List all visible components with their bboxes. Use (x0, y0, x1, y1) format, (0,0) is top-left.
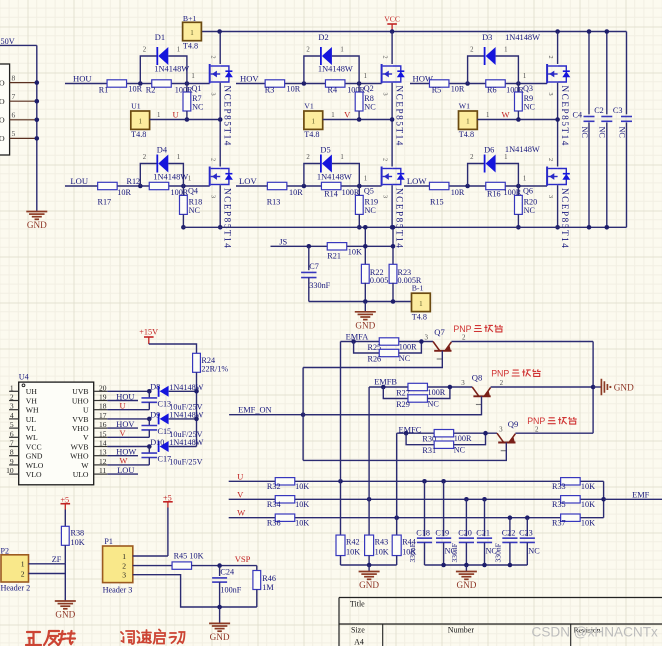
resistor R46 1M (256, 566, 258, 571)
svg-text:NC: NC (192, 103, 204, 112)
svg-text:R46: R46 (262, 574, 276, 583)
svg-text:13: 13 (99, 448, 107, 457)
svg-text:U: U (237, 471, 244, 481)
svg-text:3: 3 (461, 379, 465, 387)
svg-text:UL: UL (26, 415, 37, 424)
svg-text:W: W (502, 109, 511, 119)
node U at MOSFET column (218, 117, 223, 122)
wire drain Q3 (557, 32, 559, 65)
junction top rail at Q1 drain (217, 29, 222, 34)
svg-text:W1: W1 (459, 101, 470, 110)
wire source Q2 to mid node (391, 83, 393, 120)
resistor R43 10K (365, 535, 374, 556)
capacitor C15 10uF/25V (148, 419, 150, 426)
svg-text:10K: 10K (295, 518, 309, 527)
svg-text:1: 1 (364, 176, 367, 183)
transistor Q4 NCEP85T14 (209, 167, 211, 186)
svg-text:1: 1 (177, 47, 180, 54)
resistor R23 0.005R (389, 264, 397, 283)
node V at NC resistor (357, 117, 362, 122)
svg-text:R15: R15 (430, 197, 444, 206)
ic U4 pin 7 VCC (9, 446, 19, 448)
capacitor C22 330nF (509, 518, 511, 537)
resistor R14 100R (321, 182, 341, 189)
svg-text:GND: GND (359, 580, 379, 590)
svg-text:10K: 10K (346, 548, 360, 557)
svg-text:Title: Title (350, 599, 365, 608)
capacitor C18 330nF (424, 481, 426, 536)
svg-text:1: 1 (190, 29, 194, 37)
svg-text:20: 20 (99, 383, 107, 392)
resistor R6 100R (486, 80, 506, 87)
svg-text:VCC: VCC (26, 442, 42, 451)
wire R22 column (364, 227, 366, 264)
wire U phase node row (150, 119, 221, 121)
svg-text:R5: R5 (432, 86, 442, 95)
svg-text:R1: R1 (99, 86, 109, 95)
wire Q9 emitter to GND bus (515, 432, 593, 434)
node junction D3 anode-side (465, 81, 470, 86)
power port VCC (391, 24, 393, 32)
resistor R32 10K (275, 478, 295, 485)
wire P2 pin1 ZF (29, 563, 66, 565)
svg-text:1: 1 (364, 73, 367, 80)
svg-text:NC: NC (365, 206, 377, 215)
svg-text:C4: C4 (573, 111, 583, 120)
diode D9 1N4148W (158, 413, 160, 424)
svg-text:5: 5 (10, 420, 14, 429)
resistor R29 NC (parallel) (383, 387, 408, 399)
wire source Q3 to mid node (557, 83, 559, 120)
resistor R24 22R/1% (193, 353, 201, 372)
svg-text:10K: 10K (189, 551, 203, 560)
svg-text:W: W (237, 508, 246, 518)
connector pin 7 (10, 100, 37, 102)
node gate junction Q6 (516, 184, 521, 189)
svg-text:10uF/25V: 10uF/25V (169, 458, 202, 467)
node divider gnd (367, 563, 372, 568)
resistor R21 10K (327, 243, 347, 250)
transistor Q3 NCEP85T14 (546, 64, 548, 83)
svg-text:VH: VH (26, 396, 38, 405)
svg-text:O: O (0, 78, 5, 87)
ic U4 pin 8 GND (9, 455, 19, 457)
svg-text:WVB: WVB (71, 442, 89, 451)
resistor R34 10K (275, 496, 295, 503)
resistor R44 10K (392, 535, 401, 556)
svg-text:6: 6 (10, 429, 14, 438)
diode D2 1N4148W (304, 56, 321, 84)
svg-text:Size: Size (351, 625, 365, 634)
capacitor C4 NC (588, 32, 590, 115)
wire EMFC row (397, 432, 497, 434)
svg-text:Q5: Q5 (364, 187, 374, 196)
node Q7 base (419, 339, 424, 344)
connector P? (partial, left edge) (0, 64, 10, 155)
svg-text:D8: D8 (150, 383, 160, 392)
svg-text:2: 2 (470, 154, 474, 161)
resistor R27 100R (408, 383, 428, 390)
svg-text:O: O (0, 97, 5, 106)
connector pin 8 (10, 82, 37, 84)
diode D6 1N4148W (468, 164, 485, 187)
svg-text:V1: V1 (304, 101, 314, 110)
transistor Q8 PNP (472, 387, 479, 396)
node EMF (601, 497, 606, 502)
svg-text:R35: R35 (552, 500, 566, 509)
wire +15V to R24 (149, 344, 197, 353)
svg-text:B+1: B+1 (183, 14, 197, 23)
svg-text:EMFC: EMFC (399, 425, 422, 434)
node V at MOSFET column (390, 117, 395, 122)
svg-text:+15V: +15V (139, 328, 158, 337)
net label LOU (U4) (107, 473, 138, 475)
wire Q8 collector (303, 396, 481, 414)
wire LOW gate row (404, 185, 547, 187)
wire U4 pin row to D10 (107, 446, 149, 448)
svg-text:C20: C20 (458, 528, 472, 537)
svg-text:100R: 100R (428, 388, 446, 397)
svg-text:2: 2 (21, 569, 25, 578)
svg-text:R36: R36 (267, 518, 281, 527)
svg-text:1: 1 (340, 154, 343, 161)
svg-text:2: 2 (306, 47, 310, 54)
transistor Q1 NCEP85T14 (209, 64, 211, 83)
svg-text:WHO: WHO (70, 452, 89, 461)
svg-text:16: 16 (99, 420, 107, 429)
svg-text:R19: R19 (365, 197, 379, 206)
svg-text:6: 6 (12, 111, 16, 120)
wire EMF divider column R42 (340, 342, 342, 536)
node gate junction Q1 (185, 81, 190, 86)
ic U4 pin 14 WVB (94, 446, 108, 448)
node cap gnd row (441, 563, 446, 568)
ic U4 pin 3 WH (9, 409, 19, 411)
net label W (U4) (107, 464, 149, 466)
svg-text:10K: 10K (71, 538, 85, 547)
node gate junction Q2 (357, 81, 362, 86)
svg-text:3: 3 (382, 93, 389, 96)
capacitor C21 NC (484, 499, 486, 536)
svg-text:1: 1 (188, 176, 191, 183)
wire top VCC rail (201, 31, 626, 33)
svg-text:1: 1 (312, 118, 316, 126)
svg-text:18: 18 (99, 402, 107, 411)
ic U4 pin 2 VH (9, 400, 19, 402)
capacitor C13 10uF/25V (148, 391, 150, 398)
svg-text:2: 2 (382, 56, 389, 59)
wire EMF divider column R43 (368, 387, 370, 535)
svg-text:R33: R33 (552, 482, 566, 491)
wire source Q6 to bottom rail (557, 185, 559, 227)
resistor R42 10K (336, 535, 345, 556)
resistor R17 10R (98, 182, 118, 189)
svg-text:3: 3 (547, 195, 554, 198)
svg-text:VLO: VLO (26, 470, 42, 479)
svg-text:GND: GND (456, 580, 476, 590)
svg-text:P1: P1 (104, 537, 112, 546)
resistor R5 10R (429, 80, 449, 87)
svg-text:10R: 10R (451, 84, 465, 93)
node cap taps V (464, 497, 469, 502)
svg-text:10K: 10K (375, 548, 389, 557)
node U at NC resistor (185, 117, 190, 122)
wire +15V bootstrap bus (196, 372, 198, 446)
svg-text:10R: 10R (117, 188, 131, 197)
resistor R4 100R (325, 80, 345, 87)
resistor R31 NC (parallel) (406, 433, 434, 445)
svg-text:JS: JS (279, 237, 287, 246)
wire U4 pin row to D9 (107, 418, 149, 420)
ic U4 pin 9 WLO (9, 464, 19, 466)
net label U (U4) (107, 409, 149, 411)
net label HOU (U4) (107, 400, 138, 402)
label tiao-su-qi-dong (chinese, red) (121, 631, 134, 644)
svg-text:C18: C18 (416, 528, 430, 537)
svg-text:O: O (0, 134, 5, 143)
diode D8 1N4148W (158, 386, 160, 397)
header P2 (1, 555, 29, 582)
resistor R2 100R (152, 80, 172, 87)
resistor R12 100R (149, 182, 169, 189)
svg-text:O: O (0, 116, 5, 125)
svg-text:T4.8: T4.8 (459, 130, 474, 139)
svg-text:R18: R18 (189, 197, 203, 206)
svg-text:R4: R4 (328, 86, 338, 95)
wire sense bottom row (309, 301, 412, 303)
svg-text:8: 8 (12, 73, 16, 82)
node Q9 base (483, 431, 488, 436)
ground GND (P1) (219, 607, 221, 623)
svg-text:2: 2 (210, 56, 217, 59)
svg-text:EMFA: EMFA (346, 333, 369, 342)
svg-text:2: 2 (470, 47, 474, 54)
transistor Q7 PNP (433, 342, 440, 351)
capacitor C17 10uF/25V (148, 447, 150, 454)
ic U4 pin 12 W (94, 464, 108, 466)
svg-text:R6: R6 (487, 86, 497, 95)
svg-text:10R: 10R (287, 84, 301, 93)
svg-text:1: 1 (177, 154, 180, 161)
svg-text:T4.8: T4.8 (412, 312, 427, 321)
svg-text:1: 1 (523, 73, 526, 80)
svg-text:R31: R31 (422, 446, 436, 455)
resistor R18 NC gate pulldown (180, 195, 188, 214)
resistor R30 100R (434, 430, 454, 437)
ic U4 pin 18 U (94, 409, 108, 411)
svg-text:D4: D4 (157, 145, 168, 154)
svg-text:10R: 10R (451, 188, 465, 197)
svg-text:NC: NC (428, 399, 440, 408)
svg-text:1: 1 (21, 560, 25, 569)
svg-text:3: 3 (425, 334, 429, 342)
wire R38 to ZF node (64, 545, 66, 564)
svg-text:1N4148W: 1N4148W (153, 173, 188, 182)
wire HOW gate row (410, 83, 547, 85)
node JS at C7 (307, 244, 312, 249)
svg-text:1: 1 (138, 118, 142, 126)
node +15V bus at D8 (194, 389, 199, 394)
svg-text:VCC: VCC (384, 14, 400, 23)
wire divider ground row (341, 564, 397, 566)
svg-text:P2: P2 (1, 547, 9, 556)
wire battery-input vertical (36, 45, 38, 211)
node divider V (367, 497, 372, 502)
svg-text:R3: R3 (265, 86, 275, 95)
svg-text:VHO: VHO (72, 424, 89, 433)
svg-text:GND: GND (26, 452, 43, 461)
svg-text:U: U (120, 401, 126, 410)
svg-text:HOW: HOW (116, 448, 136, 457)
svg-text:NCEP85T14: NCEP85T14 (394, 188, 404, 249)
ic U4 (19, 382, 94, 485)
svg-text:22R/1%: 22R/1% (201, 364, 228, 373)
svg-text:R8: R8 (364, 94, 374, 103)
node gate junction Q5 (357, 184, 362, 189)
svg-text:A4: A4 (354, 638, 364, 646)
svg-text:EMF_ON: EMF_ON (238, 406, 272, 415)
svg-text:1: 1 (122, 552, 126, 561)
resistor R37 10K (561, 514, 581, 521)
wire EMF_ON row (229, 414, 481, 416)
node EMFA left (351, 339, 356, 344)
wire source Q5 to bottom rail (391, 185, 393, 227)
ic U4 pin 13 WHO (94, 455, 108, 457)
node cap taps U (422, 479, 427, 484)
svg-text:Q2: Q2 (364, 84, 374, 93)
label zheng-fan-zhuan (chinese, red) (26, 632, 41, 645)
connector pin 6 (10, 119, 37, 121)
svg-text:R2: R2 (146, 86, 156, 95)
svg-text:11: 11 (99, 466, 106, 475)
transistor Q9 PNP (497, 433, 504, 442)
svg-text:14: 14 (99, 439, 107, 448)
wire U sense row (229, 480, 604, 482)
svg-text:D5: D5 (320, 145, 330, 154)
ic U4 pin 10 VLO (9, 473, 19, 475)
capacitor C23 NC (526, 518, 528, 537)
svg-text:LOU: LOU (117, 466, 134, 475)
svg-text:10K: 10K (581, 482, 595, 491)
wire bottom source rail (182, 226, 626, 228)
node cap taps W (508, 515, 513, 520)
ic U4 pin 6 WL (9, 436, 19, 438)
node gate junction Q4 (181, 184, 186, 189)
svg-text:NC: NC (399, 354, 411, 363)
svg-text:17: 17 (99, 411, 107, 420)
svg-text:GND: GND (355, 321, 375, 331)
svg-text:3: 3 (547, 93, 554, 96)
resistor R35 10K (561, 496, 581, 503)
wire drain Q1 (219, 32, 221, 65)
svg-text:Q9: Q9 (508, 419, 519, 429)
svg-text:NC: NC (454, 446, 466, 455)
wire R23 column (392, 227, 394, 264)
svg-text:T4.8: T4.8 (183, 42, 198, 51)
svg-text:3: 3 (210, 195, 217, 198)
svg-text:LOW: LOW (407, 176, 427, 186)
svg-text:NC: NC (524, 206, 536, 215)
wire HOU gate row (65, 83, 210, 85)
node junction D2 anode-side (302, 81, 307, 86)
svg-text:2: 2 (143, 154, 147, 161)
fuse V1 (304, 111, 323, 129)
node junction D1 anode-side (138, 81, 143, 86)
svg-text:330nF: 330nF (309, 281, 330, 290)
fuse W1 (459, 111, 478, 129)
svg-text:C19: C19 (435, 528, 449, 537)
svg-text:C7: C7 (309, 262, 319, 271)
node emitter bus (591, 385, 596, 390)
svg-text:1: 1 (340, 47, 343, 54)
node junction D6 anode-side (465, 184, 470, 189)
node +15V bus at D9 (194, 417, 199, 422)
svg-text:HOU: HOU (73, 73, 92, 83)
svg-text:NC: NC (524, 103, 536, 112)
svg-text:10K: 10K (581, 518, 595, 527)
svg-text:HOV: HOV (240, 73, 259, 83)
node W at MOSFET column (555, 117, 560, 122)
svg-text:2: 2 (210, 158, 217, 161)
svg-text:3: 3 (122, 571, 126, 580)
node divider U (338, 479, 343, 484)
wire EMF out (604, 498, 662, 500)
svg-text:EMF: EMF (632, 490, 650, 499)
svg-text:10K: 10K (581, 500, 595, 509)
svg-text:2: 2 (462, 334, 466, 342)
svg-text:1: 1 (466, 118, 470, 126)
svg-text:NC: NC (617, 127, 626, 139)
ground GND (pnp emitters, right style) (593, 386, 601, 388)
svg-text:2: 2 (382, 158, 389, 161)
svg-text:9: 9 (10, 457, 14, 466)
wire V sense row (229, 498, 604, 500)
wire EMF summing vertical (603, 481, 605, 517)
svg-text:PNP: PNP (453, 324, 471, 334)
svg-text:R17: R17 (98, 197, 112, 206)
svg-text:3: 3 (499, 425, 503, 433)
resistor R26 NC (parallel) (354, 342, 380, 354)
svg-text:2: 2 (10, 393, 14, 402)
svg-text:1: 1 (504, 47, 507, 54)
svg-text:330nF: 330nF (493, 543, 502, 562)
ground GND (connector) (36, 210, 38, 213)
svg-text:CSDN @xHNACNTx: CSDN @xHNACNTx (532, 625, 659, 640)
wire W phase node row (477, 119, 557, 121)
svg-text:UH: UH (26, 387, 38, 396)
svg-text:2: 2 (535, 425, 539, 433)
ground GND (filter caps) (465, 565, 467, 572)
wire P1 pin2 to R45 (133, 565, 173, 567)
node W at NC resistor (516, 117, 521, 122)
svg-text:Header 3: Header 3 (103, 585, 133, 594)
svg-text:Q7: Q7 (434, 327, 445, 337)
svg-text:U4: U4 (19, 373, 29, 382)
ic U4 pin 20 UVB (94, 390, 108, 392)
wire drain Q5 from mid node (391, 120, 393, 167)
wire Q9 collector (303, 443, 506, 461)
resistor R3 10R (265, 80, 285, 87)
ic U4 pin 5 VL (9, 427, 19, 429)
svg-text:ZF: ZF (52, 555, 62, 564)
wire VSP row (192, 565, 257, 567)
svg-text:U1: U1 (131, 101, 141, 110)
svg-text:1: 1 (523, 176, 526, 183)
svg-text:GND: GND (27, 220, 47, 230)
svg-text:D9: D9 (150, 410, 160, 419)
svg-text:1: 1 (486, 112, 489, 119)
net label HOW (U4) (107, 455, 138, 457)
